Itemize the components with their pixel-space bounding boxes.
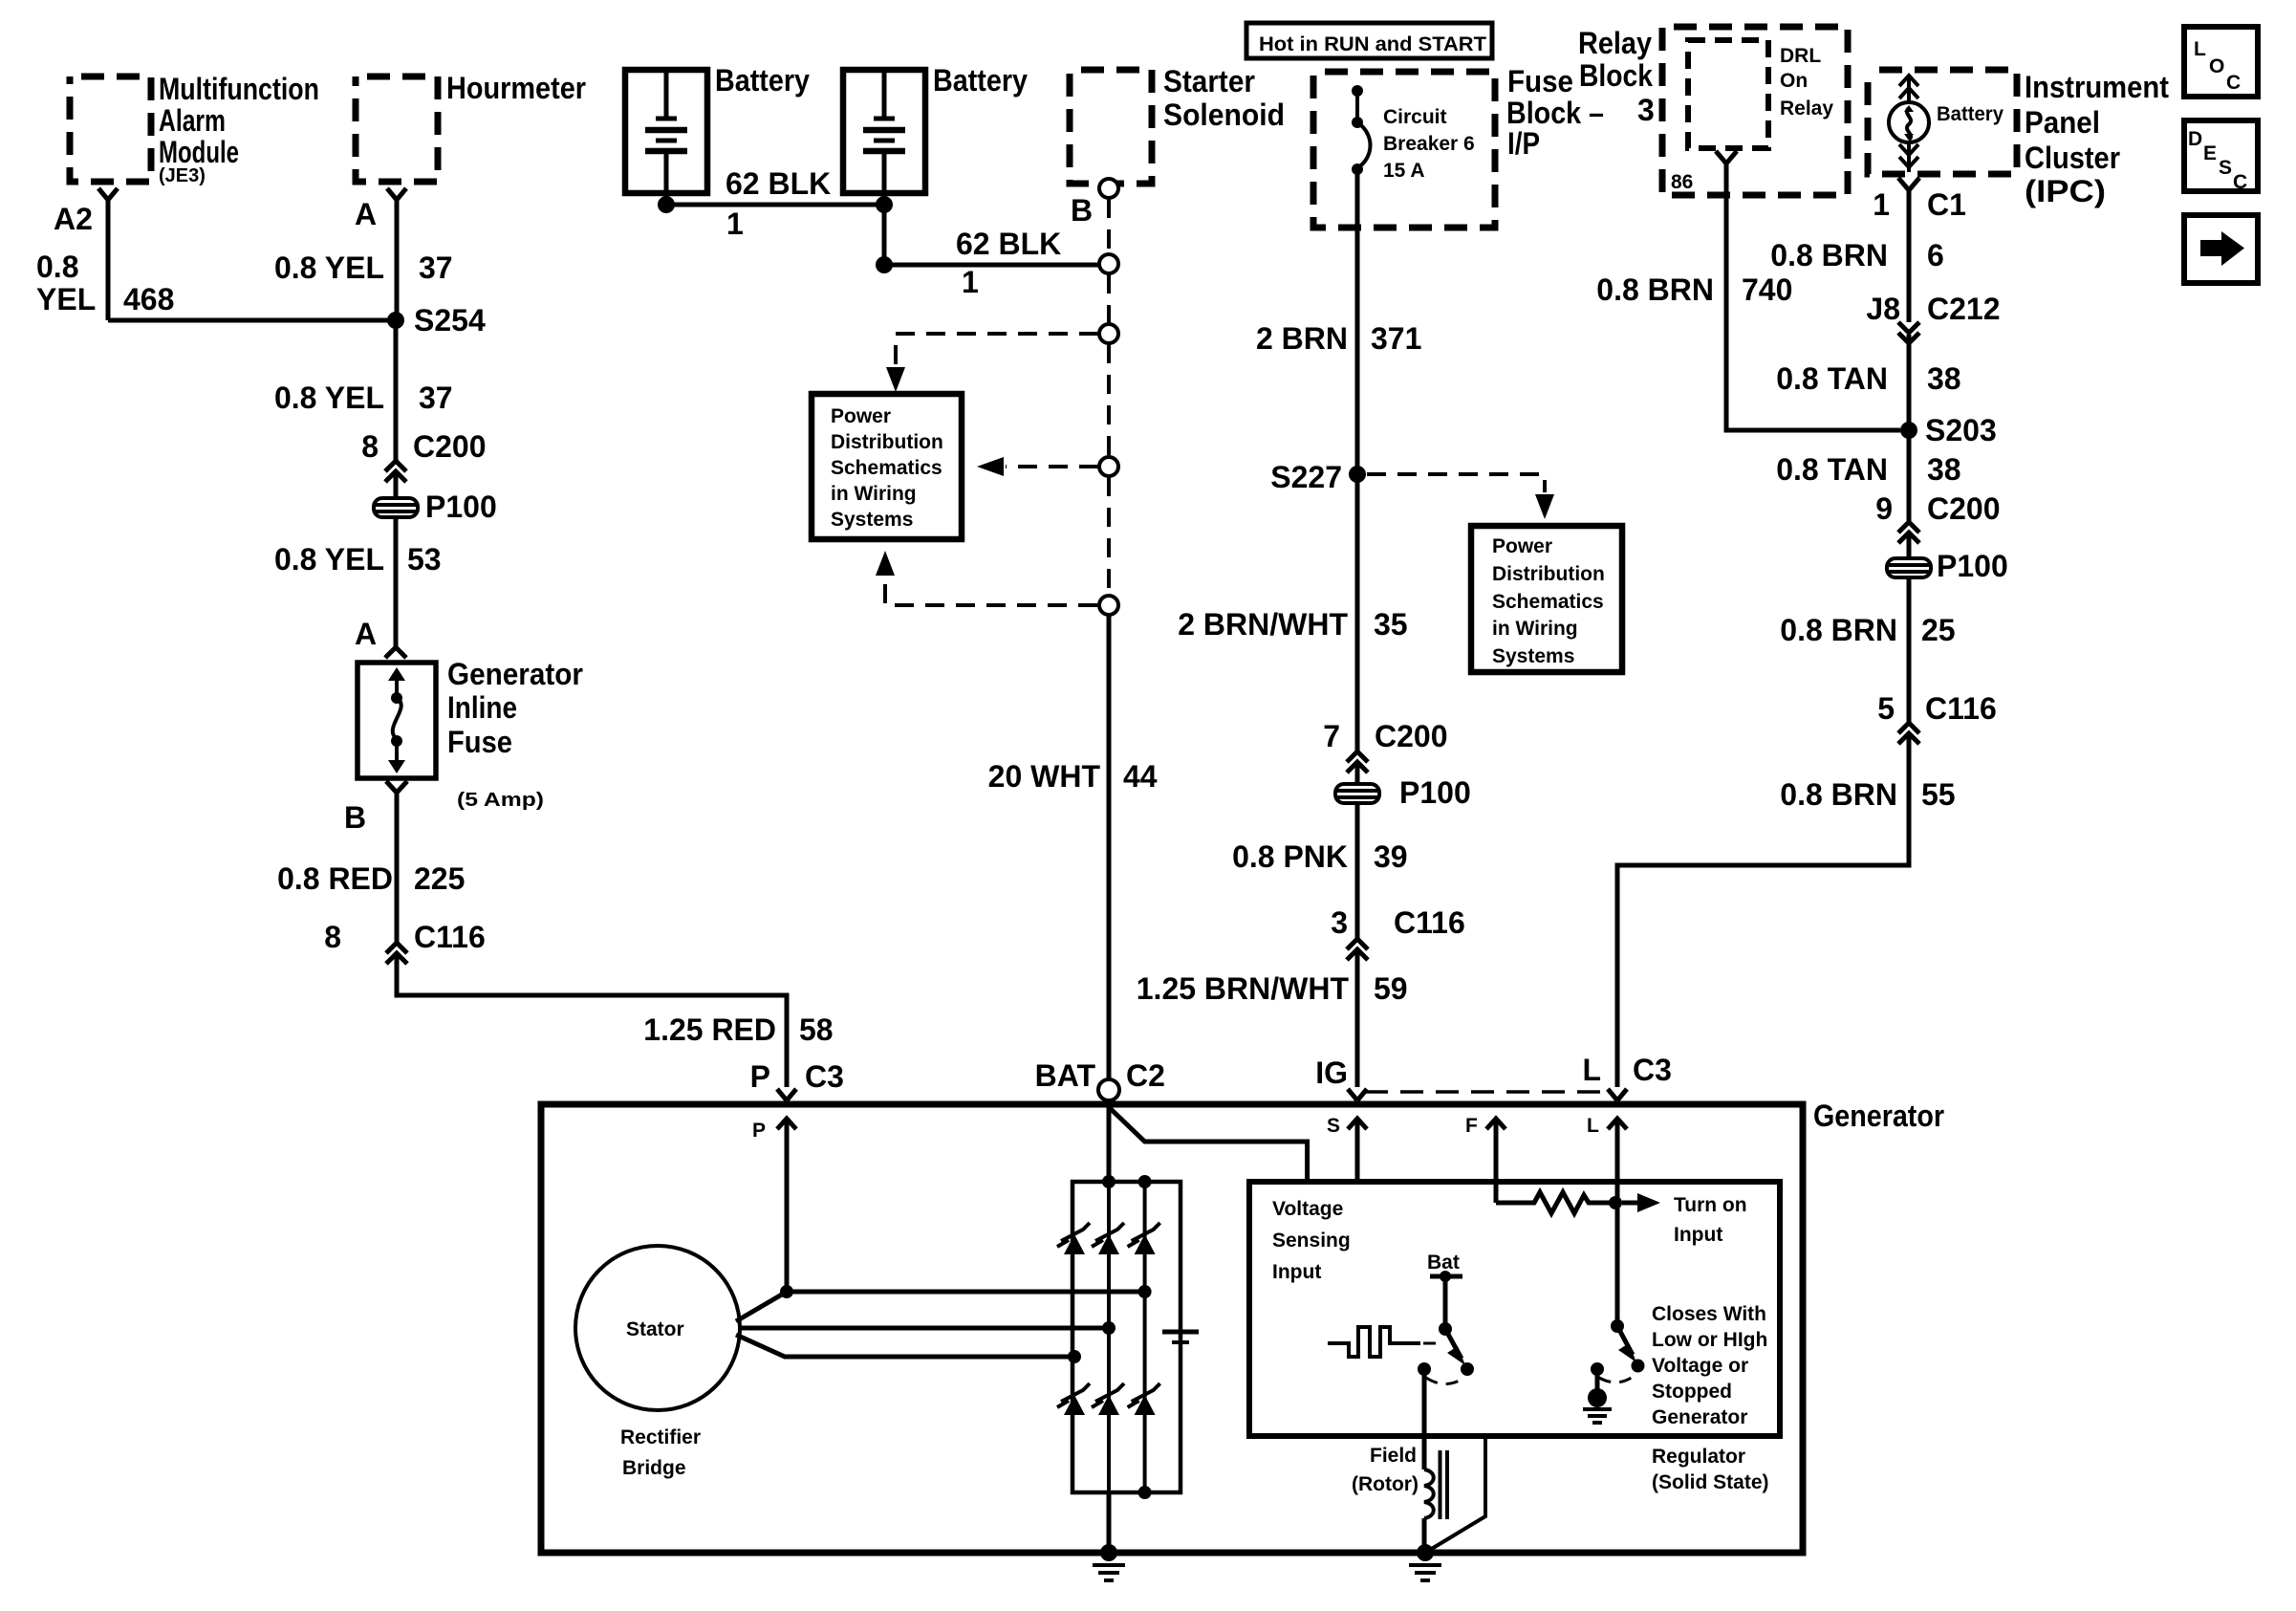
svg-text:Alarm: Alarm [159, 103, 226, 138]
svg-text:1: 1 [962, 265, 979, 299]
svg-text:Generator: Generator [1813, 1099, 1944, 1133]
svg-text:3: 3 [1637, 93, 1655, 127]
stator phase wire middle [739, 1326, 1109, 1331]
label: Rectifier Bridge [620, 1426, 701, 1479]
label: Relay Block 3 [1578, 26, 1655, 127]
svg-text:P100: P100 [1937, 549, 2008, 583]
label: Battery 1 [715, 63, 810, 98]
wire S227 down to C200 [1355, 474, 1360, 751]
wire P100 down [1355, 803, 1360, 939]
fuse block I/P (dashed box) [1313, 72, 1495, 228]
dashed wire arrow into power distribution (right) [977, 457, 1098, 476]
svg-text:1: 1 [1873, 187, 1890, 222]
rotor core lines [1440, 1450, 1448, 1519]
svg-text:D: D [2188, 128, 2202, 150]
rectifier column wires [1109, 1182, 1145, 1492]
dashed wire to power distribution (top) [886, 334, 1098, 392]
svg-text:0.8 YEL: 0.8 YEL [274, 542, 384, 577]
grommet P100 [374, 490, 497, 524]
svg-text:1: 1 [726, 207, 744, 241]
svg-text:0.8 BRN: 0.8 BRN [1770, 238, 1888, 272]
svg-text:C212: C212 [1927, 292, 2001, 326]
label: 0.8 TAN 38 (lower) [1776, 452, 1960, 487]
svg-text:Fuse: Fuse [1507, 64, 1573, 98]
svg-text:0.8 TAN: 0.8 TAN [1776, 452, 1888, 487]
junction dot battery 1 [658, 196, 675, 213]
svg-text:740: 740 [1742, 272, 1792, 307]
svg-text:Cluster: Cluster [2025, 141, 2120, 175]
grommet P100 (right) [1887, 549, 2008, 583]
wire A2 down [106, 200, 111, 320]
diode D3 (top right) [1128, 1223, 1160, 1254]
pin B connector below fuse (female Y) [386, 781, 407, 793]
svg-text:Panel: Panel [2025, 105, 2100, 140]
svg-text:1.25 RED: 1.25 RED [643, 1012, 776, 1047]
label: 0.8 BRN 740 [1596, 272, 1792, 307]
power distribution schematics box (right) [1471, 526, 1622, 672]
label: Regulator (Solid State) [1652, 1446, 1769, 1493]
wire battery1 to battery2 [666, 203, 884, 207]
svg-text:8: 8 [361, 429, 379, 464]
label: Circuit Breaker 6 15 A [1383, 106, 1475, 182]
wire battery2 down [882, 205, 887, 265]
terminal circle B [1099, 179, 1118, 198]
svg-text:F: F [1465, 1115, 1478, 1137]
resistor (turn on input) [1496, 1192, 1610, 1213]
svg-text:C200: C200 [1375, 719, 1448, 753]
svg-text:Multifunction: Multifunction [159, 72, 319, 106]
label: Multifunction Alarm Module (JE3) [159, 72, 319, 186]
svg-text:Distribution: Distribution [1492, 563, 1605, 585]
label: 0.8 TAN 38 [1776, 361, 1960, 396]
dashed solenoid stud wire [1107, 477, 1111, 595]
dashed link IG to L above generator [1365, 1090, 1612, 1094]
svg-text:YEL: YEL [36, 282, 96, 316]
pin S arrow inside generator [1327, 1115, 1367, 1182]
svg-text:S: S [2219, 157, 2232, 179]
label: pin IG [1315, 1056, 1348, 1090]
svg-text:Battery: Battery [933, 63, 1028, 98]
label: Generator [1813, 1099, 1944, 1133]
svg-text:Power: Power [831, 405, 891, 427]
label: Fuse Block - I/P [1506, 64, 1604, 161]
svg-text:Distribution: Distribution [831, 431, 943, 453]
svg-text:BAT: BAT [1035, 1058, 1096, 1093]
terminal circle 62BLK [1099, 254, 1118, 273]
pin 1 C1 connector (female Y) [1898, 178, 1919, 190]
svg-text:Hourmeter: Hourmeter [446, 71, 586, 105]
svg-text:Regulator: Regulator [1652, 1446, 1745, 1468]
junction dot phase top at rectifier [1138, 1285, 1152, 1298]
label: 0.8 BRN 55 [1780, 777, 1955, 812]
battery 2 cell symbol [863, 73, 905, 205]
svg-text:C3: C3 [1633, 1053, 1672, 1087]
svg-text:Generator: Generator [447, 657, 583, 691]
wire fuse B down [395, 793, 400, 943]
svg-text:39: 39 [1374, 839, 1408, 874]
connector C116 pin 3 (double chevron) [1331, 905, 1465, 960]
terminal circle BAT C2 [1098, 1079, 1119, 1100]
wire A2 to S254 horizontal [108, 318, 396, 323]
label: 0.8 BRN 6 [1770, 238, 1944, 272]
field coil (rotor) [1424, 1469, 1434, 1518]
svg-text:C: C [2226, 72, 2241, 94]
svg-text:C116: C116 [414, 920, 486, 954]
internal ground (lamp driver) [1583, 1369, 1612, 1423]
label: 0.8 PNK 39 [1232, 839, 1408, 874]
svg-text:in Wiring: in Wiring [831, 483, 917, 505]
wire rectifier to ground [1107, 1492, 1112, 1553]
wire C116 down, left, down to L C3 [1617, 735, 1909, 1087]
arrow legend box [2184, 215, 2258, 283]
svg-text:A2: A2 [54, 202, 93, 236]
label: 0.8 YEL 37 [274, 381, 453, 415]
field wire to ground [1422, 1518, 1427, 1553]
label: Hourmeter [446, 71, 586, 105]
svg-text:On: On [1780, 70, 1808, 92]
label: pin A of fuse [355, 617, 377, 651]
svg-text:Battery: Battery [1937, 103, 2004, 125]
DESC legend box [2184, 120, 2258, 193]
grommet P100 (IG) [1335, 775, 1471, 810]
svg-text:53: 53 [407, 542, 442, 577]
BAT wire into rectifier [1107, 1100, 1112, 1182]
svg-text:Voltage: Voltage [1272, 1198, 1343, 1220]
dashed wire to power distribution (bottom) [876, 551, 1097, 605]
connector J8 C212 (double chevron down) [1866, 292, 2000, 343]
second field wire from regulator [1425, 1436, 1485, 1553]
pin L arrow inside generator [1587, 1115, 1627, 1326]
svg-text:L: L [1587, 1115, 1599, 1137]
dashed wire S227 to power distribution [1367, 474, 1554, 519]
IPC internal connector (double chevron down) [1899, 142, 1918, 172]
svg-text:O: O [2209, 55, 2224, 77]
junction dots rectifier top [1102, 1175, 1152, 1188]
pin A connector (female Y) [387, 188, 406, 200]
stator phase wire top [736, 1292, 1145, 1321]
svg-text:A: A [355, 617, 377, 651]
wire P100 down to C116 [1907, 577, 1912, 723]
svg-text:P100: P100 [1399, 775, 1471, 810]
label: pin P C3 [750, 1059, 844, 1094]
svg-text:0.8 YEL: 0.8 YEL [274, 381, 384, 415]
svg-text:A: A [355, 197, 377, 231]
label: pin L C3 [1582, 1053, 1671, 1087]
svg-text:Input: Input [1272, 1261, 1321, 1283]
svg-text:L: L [1582, 1053, 1601, 1087]
junction dot phase bottom [1068, 1350, 1081, 1363]
junction dot phase middle [1102, 1321, 1116, 1335]
terminal circle 20WHT [1099, 596, 1118, 615]
connector C200 pin 7 (double chevron) [1323, 719, 1447, 773]
svg-text:Systems: Systems [831, 509, 913, 531]
label: Field (Rotor) [1352, 1445, 1419, 1495]
svg-text:25: 25 [1921, 613, 1956, 647]
label: pin A2 [54, 202, 93, 236]
label: 1.25 RED 58 [643, 1012, 833, 1047]
svg-text:Bat: Bat [1427, 1252, 1460, 1274]
svg-text:Block: Block [1579, 58, 1653, 93]
label: pin A [355, 197, 377, 231]
ground symbol (field) [1409, 1565, 1441, 1580]
svg-text:Solenoid: Solenoid [1163, 98, 1285, 132]
label: Battery 2 [933, 63, 1028, 98]
splice S254 [387, 303, 486, 337]
battery 1 cell symbol [645, 73, 687, 205]
dashed solenoid stud wire [1107, 199, 1111, 253]
svg-text:(JE3): (JE3) [159, 165, 206, 186]
svg-text:44: 44 [1123, 759, 1158, 794]
svg-text:Rectifier: Rectifier [620, 1426, 701, 1448]
arrow to turn on input [1622, 1193, 1660, 1212]
svg-text:C200: C200 [413, 429, 487, 464]
svg-text:9: 9 [1875, 491, 1893, 526]
stator phase wire bottom [736, 1335, 1074, 1357]
svg-text:2 BRN/WHT: 2 BRN/WHT [1178, 607, 1348, 642]
dashed switch arc (lamp driver) [1599, 1375, 1635, 1382]
svg-text:L: L [2194, 38, 2206, 60]
LOC legend box [2184, 27, 2258, 97]
svg-text:Schematics: Schematics [1492, 591, 1604, 613]
svg-text:S203: S203 [1925, 413, 1997, 447]
connector L C3 (female Y) [1608, 1089, 1627, 1100]
wire circuit breaker down to S227 [1355, 172, 1360, 474]
svg-text:Stator: Stator [626, 1318, 684, 1340]
wire C116 to IG [1355, 951, 1360, 1087]
label: pin B [344, 800, 366, 835]
svg-text:62 BLK: 62 BLK [726, 166, 831, 201]
voltage sensing switch (pivot, arm, contacts) [1418, 1322, 1474, 1376]
svg-text:J8: J8 [1866, 292, 1900, 326]
dashed link waveform to Bat switch [1423, 1342, 1442, 1345]
ground dot at generator case [1100, 1544, 1117, 1561]
pin A2 connector (female Y) [98, 188, 118, 200]
diode D6 (bottom right) [1128, 1383, 1160, 1415]
svg-text:59: 59 [1374, 971, 1408, 1006]
voltage sense wire BAT to regulator [1109, 1107, 1308, 1179]
label: 0.8 RED 225 [277, 861, 465, 896]
label: DRL On Relay [1780, 45, 1833, 120]
connector P C3 (female Y) [777, 1089, 796, 1100]
PWM waveform symbol [1328, 1327, 1420, 1357]
splice S203 [1900, 413, 1997, 447]
circuit breaker 6 [1352, 85, 1371, 175]
svg-text:0.8 RED: 0.8 RED [277, 861, 393, 896]
svg-text:2 BRN: 2 BRN [1256, 321, 1348, 356]
wire to P100 [1907, 534, 1912, 558]
svg-text:P100: P100 [425, 490, 497, 524]
junction dot battery 2 lower [876, 256, 893, 273]
svg-text:Module: Module [159, 135, 239, 169]
svg-text:(IPC): (IPC) [2025, 174, 2106, 208]
svg-text:0.8 TAN: 0.8 TAN [1776, 361, 1888, 396]
svg-text:37: 37 [419, 381, 453, 415]
label: 0.8 YEL 37 [274, 250, 453, 285]
junction dot rectifier bottom [1138, 1486, 1152, 1499]
pin 86 connector (female Y) [1671, 151, 1737, 193]
svg-text:in Wiring: in Wiring [1492, 618, 1578, 640]
svg-text:Voltage or: Voltage or [1652, 1355, 1748, 1377]
junction dot on L line [1609, 1196, 1622, 1209]
svg-text:Instrument: Instrument [2025, 70, 2169, 104]
svg-text:0.8: 0.8 [36, 250, 78, 284]
relay block (dashed box) [1662, 27, 1848, 195]
stator (circle) [575, 1246, 740, 1410]
svg-text:20 WHT: 20 WHT [988, 759, 1101, 794]
pin F arrow inside generator [1465, 1115, 1505, 1203]
Bat terminal [1430, 1271, 1462, 1329]
svg-text:Schematics: Schematics [831, 457, 942, 479]
label: Closes With Low or High Voltage or Stopped Generator [1652, 1303, 1767, 1428]
svg-text:(Rotor): (Rotor) [1352, 1473, 1419, 1495]
terminal circle to PDS right arrow [1099, 457, 1118, 476]
label: 0.8 YEL 468 [36, 250, 174, 316]
generator (outer box) [541, 1104, 1803, 1553]
wire from relay 86 down and right to S203 [1726, 163, 1900, 430]
label: Generator Inline Fuse (5 Amp) [447, 657, 583, 811]
svg-text:B: B [1071, 193, 1093, 228]
svg-text:Turn on: Turn on [1674, 1194, 1747, 1216]
svg-text:C3: C3 [805, 1059, 844, 1094]
battery 2 (box) [843, 70, 925, 193]
terminal circle to PDS top arrow [1099, 324, 1118, 343]
svg-text:Closes With: Closes With [1652, 1303, 1766, 1325]
svg-text:Relay: Relay [1780, 98, 1833, 120]
label: Instrument Panel Cluster (IPC) [2025, 70, 2169, 208]
label: 2 BRN/WHT 35 [1178, 607, 1407, 642]
svg-text:55: 55 [1921, 777, 1956, 812]
label: 0.8 YEL 53 [274, 542, 442, 577]
svg-text:6: 6 [1927, 238, 1944, 272]
svg-text:Bridge: Bridge [622, 1457, 686, 1479]
svg-text:5: 5 [1877, 691, 1895, 726]
svg-text:225: 225 [414, 861, 465, 896]
label: 2 BRN 371 [1256, 321, 1421, 356]
svg-text:0.8 BRN: 0.8 BRN [1780, 777, 1897, 812]
hourmeter (dashed box) [356, 76, 438, 182]
svg-text:P: P [750, 1059, 770, 1094]
splice S227 [1270, 460, 1366, 494]
svg-text:62 BLK: 62 BLK [956, 227, 1061, 261]
svg-text:468: 468 [123, 282, 174, 316]
svg-text:86: 86 [1671, 171, 1693, 193]
svg-text:C: C [2233, 171, 2247, 193]
label: Voltage Sensing Input [1272, 1198, 1351, 1283]
dashed solenoid stud wire [1107, 344, 1111, 456]
diode D5 (bottom mid) [1092, 1383, 1124, 1415]
voltage regulator (box) [1249, 1182, 1780, 1436]
svg-text:(Solid State): (Solid State) [1652, 1471, 1769, 1493]
svg-text:Sensing: Sensing [1272, 1230, 1351, 1252]
power distribution schematics box (left) [812, 394, 962, 539]
wire to starter solenoid [884, 263, 1098, 268]
diode D4 (bottom left) [1057, 1383, 1090, 1415]
wire S254 down [394, 320, 399, 460]
svg-text:Fuse: Fuse [447, 725, 512, 759]
fuse element: arrow up, dots, squiggle, arrow down [388, 667, 405, 773]
svg-text:Starter: Starter [1163, 64, 1255, 98]
field wire from sensing switch [1422, 1369, 1427, 1469]
diode D1 (top left) [1057, 1223, 1090, 1254]
field ground dot [1417, 1544, 1434, 1561]
svg-text:15 A: 15 A [1383, 160, 1425, 182]
label: 62 BLK 1 (right) [956, 227, 1061, 299]
wire P100 down to fuse [394, 517, 399, 648]
connector C200 pin 9 (double chevron up) [1875, 491, 2000, 543]
svg-text:58: 58 [799, 1012, 834, 1047]
svg-text:Low or HIgh: Low or HIgh [1652, 1329, 1767, 1351]
wire C116 down and right to P C3 [397, 955, 787, 1087]
svg-text:P: P [752, 1120, 766, 1142]
wire to P100 [1355, 764, 1360, 784]
svg-text:S227: S227 [1270, 460, 1342, 494]
dashed solenoid stud wire [1107, 274, 1111, 323]
label: Bat [1427, 1252, 1460, 1274]
label: 20 WHT 44 [988, 759, 1158, 794]
junction dot phase top at P column [780, 1285, 793, 1298]
svg-text:Generator: Generator [1652, 1406, 1747, 1428]
label: Battery (lamp) [1937, 103, 2004, 125]
svg-text:C2: C2 [1126, 1058, 1165, 1093]
junction dot battery 2 top [876, 196, 893, 213]
label: pin B [1071, 193, 1093, 228]
svg-text:371: 371 [1371, 321, 1421, 356]
DRL on relay (inner dashed box) [1688, 40, 1768, 148]
connector IG (female Y) [1348, 1089, 1367, 1100]
label: 62 BLK 1 (left) [726, 166, 831, 241]
svg-text:38: 38 [1927, 361, 1961, 396]
svg-text:0.8 PNK: 0.8 PNK [1232, 839, 1348, 874]
label: BAT C2 [1035, 1058, 1165, 1093]
starter solenoid (dashed box) [1070, 70, 1152, 184]
svg-text:7: 7 [1323, 719, 1340, 753]
rectifier bridge (box) [1072, 1182, 1180, 1492]
svg-text:Block –: Block – [1506, 96, 1604, 130]
svg-text:1.25 BRN/WHT: 1.25 BRN/WHT [1137, 971, 1350, 1006]
capacitor plates on rectifier right edge [1162, 1332, 1199, 1342]
svg-text:C200: C200 [1927, 491, 2001, 526]
svg-text:35: 35 [1374, 607, 1408, 642]
lamp driver switch (pivot, arm, contacts) [1591, 1319, 1645, 1376]
diode D2 (top mid) [1092, 1223, 1124, 1254]
svg-text:C116: C116 [1394, 905, 1465, 940]
svg-text:0.8 YEL: 0.8 YEL [274, 250, 384, 285]
svg-text:C1: C1 [1927, 187, 1966, 222]
wire to P100 [394, 473, 399, 498]
svg-text:3: 3 [1331, 905, 1348, 940]
battery 1 (box) [625, 70, 707, 193]
connector C116 pin 5 (double chevron up) [1877, 691, 1997, 744]
hot in run and start (box) [1246, 23, 1492, 58]
svg-text:Hot in RUN and START: Hot in RUN and START [1259, 33, 1486, 55]
svg-text:DRL: DRL [1780, 45, 1821, 67]
svg-text:0.8 BRN: 0.8 BRN [1596, 272, 1714, 307]
svg-text:37: 37 [419, 250, 453, 285]
wire 20 WHT down to BAT C2 [1107, 615, 1112, 1078]
IPC internal connector (double chevron up) [1899, 75, 1918, 102]
svg-text:Stopped: Stopped [1652, 1381, 1732, 1403]
svg-text:Breaker 6: Breaker 6 [1383, 133, 1475, 155]
svg-text:I/P: I/P [1507, 126, 1540, 161]
label: 1 C1 [1873, 187, 1966, 222]
svg-text:38: 38 [1927, 452, 1961, 487]
svg-text:0.8 BRN: 0.8 BRN [1780, 613, 1897, 647]
svg-text:E: E [2203, 142, 2217, 164]
svg-text:S254: S254 [414, 303, 486, 337]
svg-text:Inline: Inline [447, 690, 517, 725]
svg-text:IG: IG [1315, 1056, 1348, 1090]
svg-text:Relay: Relay [1578, 26, 1652, 60]
